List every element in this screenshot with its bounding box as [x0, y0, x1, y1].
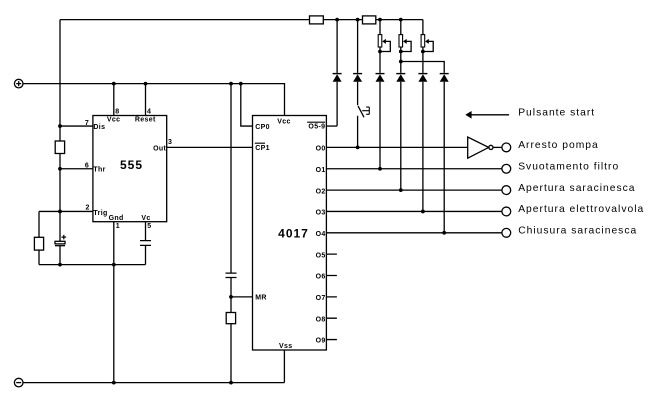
svg-text:4017: 4017: [278, 227, 309, 241]
svg-text:6: 6: [85, 163, 89, 170]
svg-text:CP0: CP0: [255, 124, 270, 131]
svg-text:O3: O3: [316, 210, 326, 217]
svg-text:Chiusura saracinesca: Chiusura saracinesca: [518, 226, 637, 237]
svg-text:MR: MR: [255, 295, 267, 302]
svg-text:O5: O5: [316, 252, 326, 259]
svg-text:Trig: Trig: [93, 210, 107, 217]
svg-text:Arresto pompa: Arresto pompa: [518, 140, 599, 151]
svg-text:O0: O0: [316, 146, 326, 153]
svg-text:O4: O4: [316, 231, 326, 238]
svg-text:O6: O6: [316, 274, 326, 281]
svg-text:555: 555: [120, 158, 143, 172]
svg-text:Thr: Thr: [93, 167, 105, 174]
svg-text:Apertura elettrovalvola: Apertura elettrovalvola: [518, 204, 644, 215]
svg-text:O9: O9: [316, 338, 326, 345]
svg-text:Apertura saracinesca: Apertura saracinesca: [518, 183, 635, 194]
svg-text:Vss: Vss: [279, 343, 293, 350]
svg-text:Pulsante start: Pulsante start: [518, 108, 595, 119]
svg-text:1: 1: [116, 223, 120, 230]
svg-text:2: 2: [85, 205, 89, 212]
svg-text:Out: Out: [153, 145, 166, 152]
svg-text:O7: O7: [316, 295, 326, 302]
svg-text:O5-9: O5-9: [308, 123, 325, 130]
svg-text:O2: O2: [316, 188, 326, 195]
svg-text:Vcc: Vcc: [107, 117, 121, 124]
svg-text:O8: O8: [316, 316, 326, 323]
svg-text:O1: O1: [316, 167, 326, 174]
svg-text:Vc: Vc: [141, 215, 150, 222]
svg-text:3: 3: [168, 139, 172, 146]
svg-text:CP1: CP1: [255, 145, 270, 152]
svg-text:8: 8: [115, 108, 119, 115]
svg-text:Reset: Reset: [135, 117, 156, 124]
svg-text:5: 5: [147, 223, 151, 230]
svg-text:Svuotamento filtro: Svuotamento filtro: [518, 161, 619, 172]
svg-text:Gnd: Gnd: [109, 215, 124, 222]
svg-text:7: 7: [85, 120, 89, 127]
svg-text:4: 4: [147, 108, 151, 115]
svg-text:Dis: Dis: [93, 124, 105, 131]
svg-text:Vcc: Vcc: [277, 118, 291, 125]
